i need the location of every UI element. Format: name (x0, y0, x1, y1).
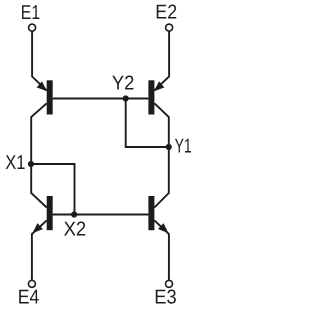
node X2 (64, 211, 87, 240)
wire: emitter lead E1 to Q1 (32, 31, 47, 90)
transistor Q3 base bar (bottom-left NPN) (47, 196, 53, 230)
transistor Q2 base bar (top-right PNP) (148, 80, 154, 114)
svg-text:E2: E2 (155, 2, 177, 24)
svg-text:Y2: Y2 (112, 73, 134, 95)
svg-text:X1: X1 (5, 152, 25, 174)
terminal circle E2 (166, 24, 173, 31)
node E3 (154, 280, 176, 308)
junction dot X2 (71, 211, 77, 217)
svg-text:E3: E3 (154, 286, 176, 308)
node X1 (5, 152, 34, 174)
node E1 (21, 2, 40, 31)
terminal circle E1 (29, 24, 36, 31)
node Y1 (166, 135, 192, 157)
wire: X1 down to Q3 collector (31, 164, 47, 208)
node E4 (18, 280, 40, 308)
transistor Q4 base bar (bottom-right NPN) (148, 196, 154, 230)
junction dot Y1 (166, 144, 172, 150)
transistor Q1 base bar (top-left PNP) (47, 80, 53, 114)
terminal circle E4 (28, 280, 35, 287)
wire: Q3 emitter to E4 (32, 220, 47, 280)
arrow NPN Q3 (points away from bar, down-left) (30, 223, 43, 236)
svg-text:E1: E1 (21, 2, 40, 24)
svg-text:X2: X2 (64, 219, 87, 241)
arrow PNP Q2 (points into base bar) (151, 81, 164, 94)
arrow PNP Q1 (points into base bar) (37, 81, 50, 94)
wire: Q4 emitter to E3 (154, 220, 169, 280)
wire: shared top base line Q1-Q2 (53, 98, 149, 100)
node Y2 (112, 73, 134, 102)
svg-text:Y1: Y1 (175, 135, 192, 157)
wire: X1 right then down to X2 (31, 164, 75, 215)
wire: shared bottom base line Q3-Q4 (53, 214, 149, 216)
wire: emitter lead E2 to Q2 (154, 31, 169, 90)
wire: Y1 down to Q4 collector (154, 147, 168, 208)
wire: Q1 collector down to node X1 (31, 103, 47, 164)
wire: Y2 down then right to Y1 (126, 99, 169, 148)
wire: Q2 collector down to node Y1 (154, 103, 168, 147)
svg-text:E4: E4 (18, 286, 40, 308)
arrow NPN Q4 (points away from bar, down-right) (158, 223, 171, 236)
terminal circle E3 (166, 280, 173, 287)
node E2 (155, 2, 177, 31)
junction dot X1 (28, 161, 34, 167)
junction dot Y2 (123, 95, 129, 101)
